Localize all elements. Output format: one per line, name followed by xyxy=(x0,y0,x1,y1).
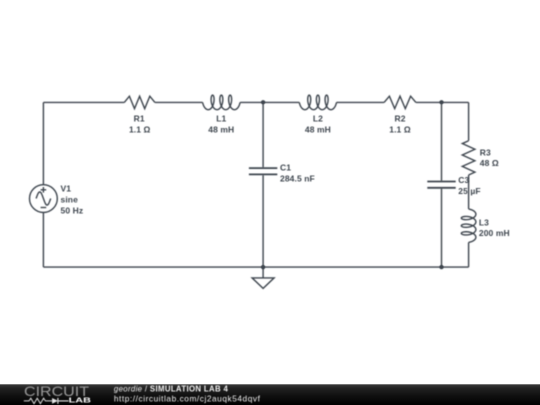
svg-text:sine: sine xyxy=(61,194,79,204)
resistor R1 xyxy=(124,96,155,108)
svg-text:C3: C3 xyxy=(458,175,469,185)
footer bar xyxy=(0,384,540,405)
V1 sine symbol xyxy=(36,192,51,205)
wire node B to R3 xyxy=(468,102,470,140)
V1 minus sign xyxy=(41,207,47,209)
svg-text:R3: R3 xyxy=(480,148,491,158)
V1 plus sign xyxy=(41,187,47,193)
wire left branch upper xyxy=(42,102,44,184)
svg-text:200 mH: 200 mH xyxy=(479,228,510,238)
svg-text:R2: R2 xyxy=(394,114,405,124)
svg-text:http://circuitlab.com/cj2auqk5: http://circuitlab.com/cj2auqk54dqvf xyxy=(114,393,261,403)
svg-text:L3: L3 xyxy=(479,218,489,228)
svg-text:LAB: LAB xyxy=(69,395,92,404)
svg-text:48 Ω: 48 Ω xyxy=(480,158,499,168)
svg-text:1.1 Ω: 1.1 Ω xyxy=(389,124,411,134)
svg-text:L1: L1 xyxy=(216,114,226,124)
wire R2 to node B xyxy=(416,101,469,103)
capacitor C1 xyxy=(249,168,277,174)
wire bottom xyxy=(43,266,468,268)
node B junction dot xyxy=(439,100,443,104)
resistor R2 xyxy=(384,96,416,108)
wire top-left to R1 xyxy=(43,101,124,103)
svg-text:C1: C1 xyxy=(280,163,291,173)
svg-text:50 Hz: 50 Hz xyxy=(61,205,84,215)
svg-text:R1: R1 xyxy=(134,114,145,124)
wire C1 upper xyxy=(262,102,264,167)
inductor L1 xyxy=(203,95,241,110)
svg-text:48 mH: 48 mH xyxy=(305,124,331,134)
wire L2 to R2 xyxy=(337,101,385,103)
voltage source V1 xyxy=(30,185,58,213)
svg-text:284.5 nF: 284.5 nF xyxy=(280,174,315,184)
svg-text:geordie / SIMULATION LAB 4: geordie / SIMULATION LAB 4 xyxy=(114,385,229,394)
wire L3 to bottom xyxy=(468,242,470,267)
CircuitLab logo wire and resistor xyxy=(24,398,52,403)
resistor R3 xyxy=(462,141,475,175)
svg-text:25 µF: 25 µF xyxy=(458,186,480,196)
wire L1 to node A xyxy=(240,101,299,103)
inductor L2 xyxy=(299,95,336,110)
svg-text:L2: L2 xyxy=(313,114,323,124)
wire R3 to L3 xyxy=(468,175,470,209)
wire C3 upper xyxy=(441,102,443,180)
node A junction dot xyxy=(261,100,265,104)
wire R1 to L1 xyxy=(155,101,203,103)
inductor L3 xyxy=(461,209,476,242)
ground xyxy=(252,267,274,288)
bottom-right junction dot xyxy=(439,265,443,269)
wire C1 lower xyxy=(262,175,264,267)
CircuitLab logo diode xyxy=(52,398,58,404)
svg-text:V1: V1 xyxy=(61,183,72,193)
ground node junction dot xyxy=(261,265,265,269)
svg-text:48 mH: 48 mH xyxy=(208,124,234,134)
svg-text:1.1 Ω: 1.1 Ω xyxy=(129,124,151,134)
wire C3 lower xyxy=(441,189,443,267)
wire left branch lower xyxy=(42,213,44,268)
capacitor C3 xyxy=(427,182,455,188)
